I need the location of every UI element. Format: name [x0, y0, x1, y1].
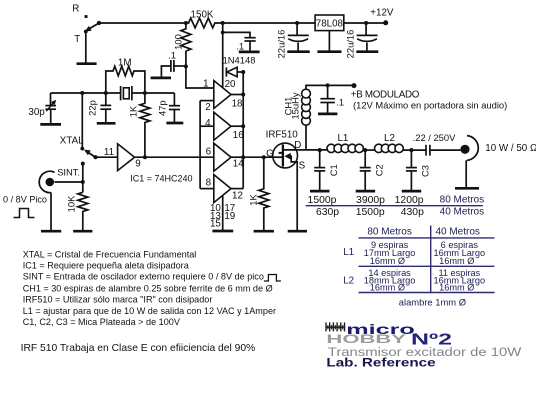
capacitor C2 [360, 150, 385, 190]
regulator 78L08 [315, 15, 344, 51]
svg-text:16mm Ø: 16mm Ø [370, 283, 405, 293]
wire T contact to ground [85, 32, 87, 63]
transistor Q1 IRF510 [266, 130, 306, 231]
capacitor C3 [406, 150, 431, 190]
svg-text:.1: .1 [336, 97, 344, 108]
svg-text:47p: 47p [157, 100, 168, 116]
capacitor 22u/16 (right) [345, 23, 378, 58]
svg-text:1: 1 [203, 79, 208, 90]
pulse waveform symbol [14, 209, 35, 218]
node junction out18 [241, 93, 245, 97]
wire L1 to L2 [363, 149, 374, 151]
table separator line [306, 205, 483, 207]
node junction 1K to output [143, 155, 147, 159]
op-amp IC1A inverter 74HC240 [96, 144, 141, 171]
svg-text:1200p: 1200p [395, 195, 424, 206]
capacitor 47p [157, 93, 181, 122]
node junction 1K/1M [143, 91, 147, 95]
ground (1K gate) [254, 230, 274, 233]
ground (C2) [356, 190, 375, 193]
svg-text:SINT.: SINT. [57, 168, 80, 178]
wire IC ground pins [222, 195, 224, 230]
svg-text:CH1 = 30 espiras de alambre 0.: CH1 = 30 espiras de alambre 0.25 sobre f… [23, 283, 273, 293]
node junction cap1 tap [295, 21, 299, 25]
svg-text:40 Metros: 40 Metros [440, 206, 484, 217]
wire 100 resistor down to pin1 corner [186, 51, 214, 88]
capacitor .1 (top middle) [223, 32, 256, 51]
table L1/L2 lines [359, 237, 495, 239]
svg-text:C1, C2, C3 = Mica Plateada > d: C1, C2, C3 = Mica Plateada > de 100V [23, 317, 181, 327]
svg-text:R: R [72, 4, 79, 15]
capacitor .1 (left of 100) [161, 50, 186, 77]
svg-text:4: 4 [205, 118, 211, 129]
buffer U1C (pins 6/14) [206, 143, 245, 171]
node +12V terminal [383, 20, 388, 25]
svg-text:L1 = ajustar para que de 10 W: L1 = ajustar para que de 10 W de salida … [23, 306, 276, 316]
wire xtal contact vertical [81, 93, 83, 148]
wire drain to filter [306, 149, 327, 151]
svg-text:L1: L1 [337, 133, 348, 144]
node junction out14 [241, 155, 245, 159]
svg-text:19: 19 [224, 211, 235, 222]
svg-text:IC1 = 74HC240: IC1 = 74HC240 [130, 173, 192, 183]
svg-text:18: 18 [232, 99, 243, 110]
crystal XTAL Y1 [121, 86, 132, 100]
node junction 1K gate tap [262, 155, 266, 159]
svg-text:16: 16 [233, 130, 244, 141]
wire SINT jack to junction [55, 181, 83, 183]
svg-text:14: 14 [233, 158, 244, 169]
node junction SINT [81, 180, 85, 184]
pulse symbol (notes) [264, 275, 281, 282]
svg-text:6: 6 [206, 146, 212, 157]
node junction C1 [318, 148, 322, 152]
notes text block [23, 250, 276, 327]
node junction C3 [409, 148, 413, 152]
capacitor C1 [314, 150, 339, 190]
svg-text:IRF510: IRF510 [266, 130, 299, 141]
svg-text:80 Metros: 80 Metros [367, 226, 411, 237]
resistor 1M (feedback) [106, 58, 145, 93]
node junction xtal switch [80, 91, 84, 95]
capacitor 22u/16 (left) [276, 23, 309, 58]
node junction cap2 tap [364, 21, 368, 25]
svg-text:15: 15 [210, 219, 221, 230]
ground (C3) [402, 190, 421, 193]
ground (10K) [73, 230, 92, 233]
svg-text:100: 100 [172, 34, 183, 50]
table capacitor values row1 [308, 195, 485, 207]
wire output bus right [242, 72, 244, 189]
svg-text:Lab. Reference: Lab. Reference [326, 356, 436, 369]
svg-text:20: 20 [225, 79, 236, 90]
svg-text:150K: 150K [191, 10, 214, 21]
resistor 150K (series in rail) [186, 18, 218, 28]
ground (C1) [310, 190, 330, 193]
node +B terminal [352, 83, 357, 88]
svg-text:630p: 630p [316, 207, 339, 218]
svg-text:40 Metros: 40 Metros [435, 226, 479, 237]
svg-text:1500p: 1500p [308, 195, 337, 206]
node junction 22p/1M [104, 91, 108, 95]
svg-text:C3: C3 [420, 165, 431, 177]
svg-text:C1: C1 [328, 164, 339, 176]
connector output RF [460, 136, 536, 188]
wire rail 78L08 to +12V [344, 22, 384, 24]
svg-text:L1: L1 [343, 247, 354, 258]
svg-text:SINT = Entrada de oscilador ex: SINT = Entrada de oscilador externo requ… [23, 272, 264, 282]
node junction 150K left [184, 21, 188, 25]
svg-text:IC1 = Requiere pequeña aleta: IC1 = Requiere pequeña aleta disipadora [23, 260, 190, 270]
svg-text:16mm Ø: 16mm Ø [370, 256, 405, 266]
svg-text:.1: .1 [168, 50, 176, 61]
ground (.1 top middle) [239, 51, 260, 54]
svg-text:+12V: +12V [370, 7, 394, 18]
table row L1 [343, 240, 485, 266]
svg-text:16mm Ø: 16mm Ø [439, 256, 474, 266]
buffer U1D (pins 8/12) [206, 175, 244, 203]
svg-text:15uHy: 15uHy [290, 92, 301, 119]
svg-text:9: 9 [135, 158, 140, 169]
node junction out16 [241, 124, 245, 128]
ground (output) [455, 187, 479, 190]
svg-text:(12V Máximo en portadora sin a: (12V Máximo en portadora sin audio) [353, 99, 507, 110]
table row L2 [343, 268, 485, 293]
trimmer capacitor 30p [28, 93, 56, 123]
svg-text:11: 11 [104, 147, 114, 158]
ground (source) [288, 230, 307, 233]
svg-text:XTAL = Cristal de Frecuencia: XTAL = Cristal de Frecuencia Fundamental [23, 250, 197, 260]
svg-text:T: T [74, 34, 80, 45]
svg-text:2: 2 [205, 102, 210, 113]
wire SINT contact down [82, 164, 84, 193]
svg-text:8: 8 [206, 177, 212, 188]
switch S1 R/T [72, 4, 101, 45]
node junction diode anode [241, 70, 245, 74]
svg-text:S: S [299, 160, 306, 171]
buffer U1B (pins 4/16) [205, 112, 244, 141]
svg-text:G: G [266, 148, 274, 159]
wire input bus left [199, 101, 201, 189]
svg-text:22u/16: 22u/16 [345, 30, 356, 59]
wire L2 to cap [403, 149, 425, 151]
ground (22u left) [287, 50, 309, 53]
ground (47p) [166, 122, 183, 125]
ground (.1 +B) [318, 113, 337, 116]
table capacitor values row2 [316, 206, 484, 218]
capacitor .1 (+B) [320, 85, 344, 113]
capacitor 22p [86, 93, 111, 122]
svg-text:1K: 1K [247, 194, 258, 206]
ground (22p) [97, 122, 116, 125]
svg-text:C2: C2 [373, 164, 384, 176]
node junction C2 [363, 148, 367, 152]
svg-text:1500p: 1500p [356, 207, 385, 218]
resistor 100 (vertical) [181, 23, 191, 51]
wire IC1A output to buffers [135, 156, 214, 158]
node junction 150K right [221, 21, 225, 25]
inductor L2 [375, 133, 404, 153]
node junction .1 tap [184, 64, 188, 68]
wire pin20 vertical [222, 23, 224, 87]
buffer U1A (pins 2/18) [203, 79, 243, 113]
svg-text:HOBBY: HOBBY [326, 333, 406, 346]
svg-text:L2: L2 [384, 133, 395, 144]
svg-text:80 Metros: 80 Metros [440, 195, 484, 206]
node junction +B .1 tap [326, 83, 330, 87]
svg-text:1K: 1K [128, 105, 139, 117]
ground (30p) [40, 123, 61, 126]
svg-text:D: D [294, 140, 301, 151]
svg-text:1N4148: 1N4148 [223, 55, 256, 66]
svg-text:12: 12 [232, 191, 243, 202]
svg-text:IRF 510 Trabaja en Clase E c: IRF 510 Trabaja en Clase E con efiicienc… [21, 343, 256, 354]
logo antenna icon [326, 322, 346, 331]
pin labels 10 13 15 17 19 [210, 203, 235, 230]
svg-text:alambre 1mm Ø: alambre 1mm Ø [399, 297, 466, 308]
inductor CH1 15uHy [282, 85, 354, 149]
svg-text:10K: 10K [66, 195, 77, 212]
svg-text:10 W / 50 Ω: 10 W / 50 Ω [485, 143, 536, 154]
svg-text:IRF510 = Utilizar sólo marca ": IRF510 = Utilizar sólo marca "IR" con di… [23, 295, 213, 305]
ground (T switch) [77, 62, 97, 65]
resistor 1K (gate) [247, 157, 268, 230]
svg-text:0 / 8V Pico: 0 / 8V Pico [3, 195, 47, 205]
svg-text:.22 / 250V: .22 / 250V [413, 132, 456, 143]
ground (22u right) [356, 50, 378, 53]
table L1/L2 header [367, 226, 480, 237]
svg-text:L2: L2 [343, 276, 354, 287]
node junction .1 branch [221, 31, 225, 35]
diode D1 1N4148 [223, 55, 256, 77]
resistor 1K (crystal) [128, 93, 150, 157]
svg-text:430p: 430p [401, 207, 424, 218]
ground (.1 left) [151, 77, 171, 80]
svg-text:78L08: 78L08 [316, 19, 344, 30]
svg-text:3900p: 3900p [356, 195, 385, 206]
svg-text:16mm Ø: 16mm Ø [439, 283, 474, 293]
connector SINT jack [39, 168, 80, 231]
switch S2 XTAL/SINT [80, 147, 97, 166]
svg-text:30p: 30p [28, 107, 45, 118]
svg-text:22p: 22p [86, 100, 97, 116]
svg-text:22u/16: 22u/16 [276, 30, 287, 59]
svg-text:.1: .1 [236, 40, 244, 51]
wire crystal node main [51, 92, 121, 94]
wire gate [243, 156, 273, 158]
wire rail to 78L08 [218, 22, 316, 24]
resistor 10K [66, 192, 88, 230]
ground (78L08) [317, 50, 341, 53]
svg-text:1M: 1M [118, 58, 132, 69]
capacitor .22/250V (series) [413, 132, 461, 156]
ground (SINT jack) [41, 230, 61, 233]
inductor L1 [327, 133, 363, 153]
wire top supply rail left [99, 22, 186, 24]
ground (IC1 pins) [212, 230, 233, 233]
svg-text:XTAL: XTAL [60, 136, 84, 147]
